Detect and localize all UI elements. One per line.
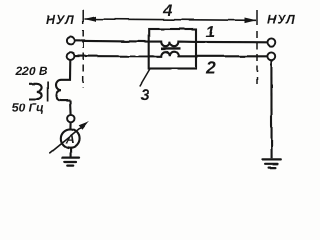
terminal circle left top — [67, 37, 74, 44]
wire 1 (right segment) — [196, 41, 267, 43]
terminal circle right top — [268, 38, 276, 46]
leader line to label 3 — [140, 69, 150, 86]
svg-text:50 Гц: 50 Гц — [12, 101, 44, 115]
svg-text:2: 2 — [205, 58, 216, 78]
neutralizing transformer 3: box — [149, 29, 196, 69]
svg-text:1: 1 — [206, 23, 215, 41]
dashed boundary line (right) — [256, 11, 258, 86]
wire: terminal to ammeter — [69, 122, 71, 129]
svg-text:НУЛ: НУЛ — [46, 13, 75, 27]
wire: left bottom terminal down to supply transformer — [61, 60, 70, 80]
wire: transformer secondary down to terminal — [69, 101, 72, 115]
svg-text:220 В: 220 В — [15, 64, 48, 78]
ground (right) — [262, 159, 281, 167]
supply transformer: core — [47, 82, 49, 102]
svg-text:3: 3 — [141, 87, 150, 104]
wire 2 (left segment) — [75, 55, 149, 57]
wire 2 (right segment) — [196, 55, 267, 57]
supply transformer: secondary winding (right, humps left) — [56, 80, 70, 101]
transformer 3 top winding (on wire 1) — [149, 42, 196, 47]
wire: ammeter to ground — [70, 148, 72, 157]
dimension line 4 (with arrowheads) — [84, 16, 257, 23]
ground (left) — [63, 158, 80, 166]
transformer 3 bottom winding (on wire 2) — [149, 52, 196, 57]
terminal circle right bottom — [267, 52, 275, 60]
terminal circle above ammeter — [67, 115, 74, 122]
ammeter A — [61, 129, 80, 148]
transformer 3 core — [161, 47, 181, 49]
wire: right bottom terminal down to ground — [270, 60, 272, 158]
adjustment arrow through ammeter — [50, 121, 90, 153]
terminal circle left bottom — [67, 52, 75, 60]
wire 1 (left segment) — [74, 40, 148, 43]
svg-text:4: 4 — [163, 3, 173, 20]
supply transformer: primary winding (left, humps right) — [29, 84, 42, 99]
dashed boundary line (left) — [82, 10, 84, 89]
svg-text:НУЛ: НУЛ — [267, 12, 296, 26]
